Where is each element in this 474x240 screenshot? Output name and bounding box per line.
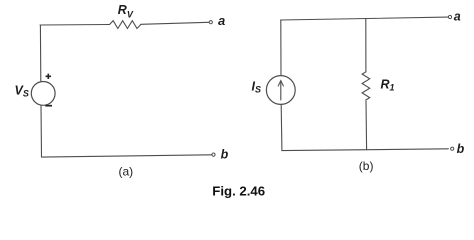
- svg-text:b: b: [221, 147, 229, 161]
- svg-text:b: b: [457, 142, 465, 156]
- voltage source minus sign: [45, 105, 52, 107]
- svg-text:(b): (b): [359, 159, 374, 173]
- resistor RV (zigzag): [110, 21, 141, 29]
- wire: circuit (b) top horizontal: [281, 17, 448, 20]
- voltage source plus sign: [46, 74, 51, 79]
- wire: circuit (b) bottom horizontal: [282, 149, 449, 151]
- resistor R1 (vertical zigzag): [362, 72, 370, 100]
- wire: circuit (b) R1 branch vertical upper: [365, 19, 367, 72]
- wire: circuit (a) left vertical upper: [39, 25, 41, 81]
- wire: circuit (a) top-right horizontal segment: [141, 22, 209, 24]
- svg-text:a: a: [454, 10, 461, 24]
- node a terminal of circuit (b): [448, 15, 451, 18]
- svg-text:IS: IS: [252, 79, 262, 94]
- wire: circuit (b) R1 branch vertical lower: [365, 101, 368, 150]
- node b terminal of circuit (b): [451, 147, 454, 150]
- svg-text:Fig. 2.46: Fig. 2.46: [212, 184, 265, 199]
- node a terminal of circuit (a): [209, 21, 212, 24]
- wire: circuit (a) left vertical lower: [40, 105, 43, 157]
- wire: circuit (a) top-left horizontal segment: [40, 24, 110, 27]
- current source IS arrow: [280, 82, 282, 101]
- node b terminal of circuit (a): [212, 153, 215, 156]
- svg-text:a: a: [218, 13, 225, 28]
- svg-text:(a): (a): [119, 164, 134, 178]
- wire: circuit (b) left vertical upper: [280, 20, 282, 76]
- wire: circuit (b) left vertical lower: [280, 105, 283, 151]
- current source IS circle: [266, 76, 295, 105]
- voltage source VS circle: [31, 82, 55, 106]
- svg-text:R1: R1: [381, 78, 395, 93]
- svg-text:VS: VS: [15, 84, 29, 99]
- wire: circuit (a) bottom horizontal: [42, 155, 212, 157]
- svg-text:RV: RV: [118, 3, 134, 20]
